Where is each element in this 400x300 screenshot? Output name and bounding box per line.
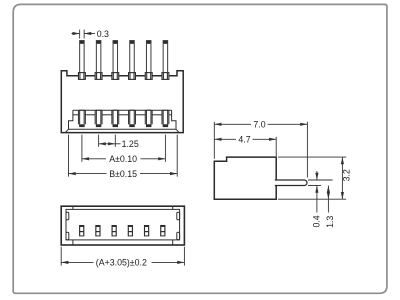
- svg-text:1.3: 1.3: [325, 216, 335, 228]
- svg-text:1.25: 1.25: [122, 139, 139, 149]
- contact slot 4: [129, 110, 136, 127]
- pin collar 3: [112, 73, 119, 80]
- pin 3: [113, 41, 118, 80]
- contact 1: [79, 225, 84, 236]
- svg-text:A±0.10: A±0.10: [109, 154, 137, 164]
- extension line pin top: [308, 179, 333, 181]
- contact 6: [160, 225, 165, 236]
- contact slot 6: [162, 110, 169, 127]
- contact slot 2: [95, 110, 102, 127]
- contact 2: [95, 225, 100, 236]
- slot ledge segments: [73, 114, 172, 116]
- corner tick top-right: [172, 206, 174, 209]
- pin 6: [163, 41, 168, 80]
- housing body outline (top view): [61, 71, 183, 133]
- contact 5: [144, 225, 149, 236]
- pin collar 1: [78, 73, 85, 80]
- latch slot upper-left: [66, 212, 69, 220]
- contact 4: [128, 225, 133, 236]
- inner bottom line: [69, 128, 177, 130]
- contact slot 1: [78, 110, 85, 127]
- latch slot upper-right: [177, 212, 180, 220]
- dimension 4.7: [214, 137, 276, 156]
- extension line body top (3.2): [278, 156, 346, 158]
- contact slot 3: [112, 110, 119, 127]
- extension line body bottom (3.2 / 1.3): [278, 198, 346, 200]
- opening left step: [69, 110, 73, 129]
- extension line pin bottom: [308, 185, 321, 187]
- dimension 1.25 (pitch): [99, 135, 121, 147]
- dimension 1.3: [327, 186, 330, 213]
- pin 5: [146, 41, 151, 80]
- svg-text:B±0.15: B±0.15: [109, 169, 137, 179]
- pin collar 2: [95, 73, 102, 80]
- foot chamfer right: [176, 129, 179, 132]
- corner tick bottom-right: [172, 240, 174, 245]
- svg-text:4.7: 4.7: [238, 135, 250, 145]
- dimension 0.4: [315, 171, 318, 213]
- latch slot lower-right: [177, 232, 180, 240]
- svg-text:7.0: 7.0: [253, 120, 265, 130]
- svg-text:3.2: 3.2: [341, 169, 351, 181]
- svg-text:(A+3.05)±0.2: (A+3.05)±0.2: [96, 258, 147, 268]
- dimension 7.0: [214, 122, 307, 178]
- pin 1: [80, 41, 85, 80]
- contact slot 5: [145, 110, 152, 127]
- corner tick top-left: [72, 206, 74, 209]
- dimension B±0.15: [69, 135, 178, 177]
- front opening top edge: [73, 109, 172, 111]
- pin collar 4: [129, 73, 136, 80]
- contact 3: [111, 225, 116, 236]
- pin collar 6: [162, 73, 169, 80]
- pin 4: [130, 41, 135, 80]
- dimension 0.3 (pin width): [72, 30, 96, 39]
- svg-text:0.3: 0.3: [97, 29, 109, 39]
- pin collar 5: [145, 73, 152, 80]
- body outline (side view): [214, 157, 276, 199]
- dimension 3.2: [341, 157, 344, 199]
- svg-text:0.4: 0.4: [312, 215, 322, 227]
- pin (side view): [275, 180, 307, 186]
- pin 2: [96, 41, 101, 80]
- housing inner wall: [66, 209, 180, 240]
- housing outer (bottom view): [61, 206, 184, 245]
- opening right step: [172, 110, 176, 129]
- dimension (A+3.05)±0.2: [61, 247, 184, 266]
- corner tick bottom-left: [72, 240, 74, 245]
- foot chamfer left: [65, 129, 68, 132]
- dimension A±0.10: [82, 135, 165, 162]
- latch slot lower-left: [66, 232, 69, 240]
